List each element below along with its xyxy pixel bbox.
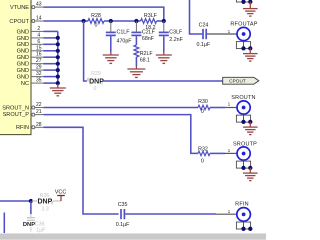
svg-text:GND: GND — [17, 68, 29, 74]
svg-text:0: 0 — [201, 109, 204, 115]
wire to CPOUT flag — [103, 80, 223, 82]
svg-text:21: 21 — [36, 109, 42, 115]
svg-text:14: 14 — [36, 16, 42, 22]
svg-text:2: 2 — [37, 26, 40, 32]
connector SROUTN — [231, 95, 255, 124]
resistor R30 — [198, 105, 210, 109]
svg-text:CPOUT: CPOUT — [9, 19, 29, 25]
svg-text:4: 4 — [37, 32, 40, 38]
wire SROUT_P row — [44, 115, 197, 154]
svg-text:32: 32 — [36, 71, 42, 77]
svg-text:15: 15 — [36, 45, 42, 51]
svg-text:28: 28 — [36, 122, 42, 128]
wire bottom left net — [0, 200, 32, 202]
svg-text:C1LF: C1LF — [117, 30, 131, 36]
connector (cut off, top right) pads — [236, 0, 252, 4]
capacitor C36 (DNP) branch — [30, 201, 32, 214]
node junction at R28 left — [82, 19, 86, 23]
svg-text:GND: GND — [17, 49, 29, 55]
svg-text:2.2nF: 2.2nF — [169, 37, 183, 43]
svg-text:1: 1 — [228, 209, 231, 214]
pin 27 stub — [31, 63, 44, 65]
wire gnd row segments — [44, 31, 58, 83]
wire RFIN route — [44, 127, 119, 214]
svg-text:RFIN: RFIN — [235, 201, 249, 207]
wire / pin to RFIN connector — [125, 213, 216, 215]
svg-text:R30: R30 — [198, 99, 208, 105]
resistor R36 (DNP) — [32, 200, 37, 202]
pin 14 stub — [32, 20, 44, 23]
svg-text:1: 1 — [228, 102, 231, 107]
pin 4 stub — [31, 37, 44, 39]
svg-text:6: 6 — [37, 39, 40, 45]
node junction — [29, 199, 33, 203]
wire VTUNE net — [44, 7, 164, 21]
svg-text:43: 43 — [36, 2, 42, 8]
resistor R3LF — [141, 19, 157, 24]
wire / pin to SROUTP — [197, 152, 199, 154]
pin 29 stub — [31, 69, 44, 71]
svg-text:VCC: VCC — [55, 190, 67, 196]
ground (top right connector) — [243, 2, 258, 16]
svg-text:DNP: DNP — [38, 199, 53, 206]
svg-text:GND: GND — [17, 55, 29, 61]
resistor R28 — [88, 19, 104, 24]
svg-text:SROUT_P: SROUT_P — [3, 112, 30, 118]
pin 43 stub — [32, 6, 44, 9]
svg-text:0: 0 — [95, 23, 98, 29]
pin 28 stub — [32, 126, 44, 129]
scrollbar band — [0, 233, 266, 240]
GND bus wire — [57, 31, 59, 84]
node junction at C2LF — [134, 19, 138, 23]
connector RFOUTAP — [230, 22, 257, 51]
ground (SROUTP) — [243, 168, 258, 181]
connector RFIN — [235, 201, 252, 231]
svg-text:NC: NC — [21, 81, 29, 87]
pin 16 stub — [31, 56, 44, 58]
wire / pin to SROUTN — [210, 107, 225, 109]
svg-text:GND: GND — [17, 42, 29, 48]
resistor R29 (DNP) — [87, 79, 103, 84]
svg-text:16: 16 — [36, 52, 42, 58]
capacitor C3LF — [159, 21, 184, 52]
wire fragment at left edge — [3, 213, 5, 234]
bus junction dots — [56, 36, 60, 85]
svg-text:DNP: DNP — [23, 222, 35, 228]
svg-text:C35: C35 — [118, 202, 128, 208]
svg-text:0.1µF: 0.1µF — [116, 222, 130, 228]
svg-text:VTUNE: VTUNE — [10, 5, 29, 11]
svg-text:SROUT_N: SROUT_N — [2, 105, 29, 111]
wire R29 branch — [84, 21, 87, 81]
ground (C1LF) — [103, 52, 119, 64]
svg-text:68nF: 68nF — [142, 36, 155, 42]
capacitor C2LF — [131, 21, 155, 42]
svg-text:R2LF: R2LF — [140, 51, 154, 57]
svg-text:1: 1 — [228, 148, 231, 153]
svg-text:68.1: 68.1 — [140, 58, 150, 64]
ground (C3LF) — [156, 52, 172, 64]
svg-text:RFIN: RFIN — [16, 125, 29, 131]
svg-text:29: 29 — [36, 65, 42, 71]
pin 6 stub — [31, 43, 44, 45]
pin 15 stub — [31, 50, 44, 52]
pin 35 stub (NC) — [31, 82, 44, 84]
ground (R2LF) — [127, 66, 145, 77]
IC U1 body — [0, 0, 31, 135]
pin 32 stub — [31, 76, 44, 78]
capacitor C24 — [196, 23, 210, 49]
wire — [104, 20, 141, 22]
svg-text:35: 35 — [36, 78, 42, 84]
wire CPOUT row — [44, 20, 89, 22]
svg-text:1µF: 1µF — [36, 227, 46, 233]
wire / pin to RFOUTAP — [207, 33, 237, 35]
resistor R32 — [198, 151, 210, 155]
node junction at C1LF — [109, 19, 113, 23]
svg-text:0.1µF: 0.1µF — [196, 42, 210, 48]
wire — [157, 20, 164, 22]
svg-text:R29: R29 — [91, 71, 101, 77]
svg-text:GND: GND — [17, 36, 29, 42]
pin 2 stub — [31, 30, 44, 32]
svg-text:C3LF: C3LF — [169, 30, 183, 36]
pin 21 stub — [32, 113, 44, 116]
svg-text:1: 1 — [228, 29, 231, 34]
svg-text:0: 0 — [201, 159, 204, 165]
ground (SROUTN) — [243, 122, 258, 135]
svg-text:0: 0 — [94, 86, 97, 92]
wire RFOUTA feed from top — [190, 0, 203, 34]
svg-text:GND: GND — [17, 62, 29, 68]
svg-text:DNP: DNP — [89, 78, 104, 85]
svg-text:3.3: 3.3 — [41, 206, 48, 212]
svg-text:GND: GND — [17, 75, 29, 81]
svg-text:R3LF: R3LF — [144, 13, 158, 19]
svg-text:C24: C24 — [199, 23, 209, 29]
svg-text:R28: R28 — [91, 13, 101, 19]
ground (GND bus) — [50, 84, 66, 96]
power VCC — [55, 190, 67, 201]
connector SROUTP — [233, 142, 257, 170]
svg-text:GND: GND — [17, 29, 29, 35]
resistor R2LF — [134, 36, 153, 66]
svg-text:470pF: 470pF — [117, 38, 133, 44]
svg-text:27: 27 — [36, 58, 42, 64]
node junction at C3LF / VTUNE — [162, 19, 166, 23]
capacitor C35 — [116, 202, 130, 228]
capacitor C1LF — [106, 21, 132, 52]
svg-text:CPOUT: CPOUT — [229, 79, 246, 84]
ground (RFOUTAP) — [243, 48, 258, 61]
wire SROUT_N row — [44, 107, 199, 109]
net flag CPOUT — [223, 77, 259, 84]
pin 22 stub — [32, 106, 44, 109]
svg-text:R32: R32 — [198, 147, 208, 153]
svg-text:C2LF: C2LF — [142, 30, 156, 36]
svg-text:22: 22 — [36, 102, 42, 108]
